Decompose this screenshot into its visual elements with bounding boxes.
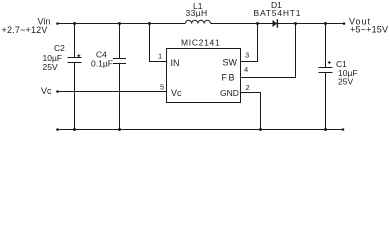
node Vout label <box>349 17 388 35</box>
svg-text:IN: IN <box>171 58 180 68</box>
svg-text:4: 4 <box>244 65 248 74</box>
wire Vc to pin 5 <box>57 91 167 93</box>
junction bottom rail / C2 <box>73 128 76 131</box>
capacitor C4 <box>113 23 126 130</box>
node bottom-right terminal dot <box>342 128 345 131</box>
svg-text:3: 3 <box>245 51 249 60</box>
wire IN pin from top rail <box>150 23 167 62</box>
svg-text:Vc: Vc <box>41 86 52 96</box>
svg-text:FB: FB <box>222 73 237 83</box>
svg-text:25V: 25V <box>338 77 353 87</box>
svg-text:+2.7~+12V: +2.7~+12V <box>2 25 48 35</box>
node Vc terminal dot <box>56 90 59 93</box>
svg-text:1: 1 <box>158 52 162 61</box>
wire SW pin to top rail <box>241 23 258 62</box>
svg-text:2: 2 <box>246 83 250 92</box>
svg-text:25V: 25V <box>43 62 58 72</box>
node Vin terminal dot <box>56 22 59 25</box>
junction top rail / SW wire <box>256 22 259 25</box>
capacitor C2 <box>68 23 82 130</box>
IC U1 MIC2141 <box>167 38 241 103</box>
svg-text:+5~+15V: +5~+15V <box>350 25 388 35</box>
svg-text:33µH: 33µH <box>186 8 208 18</box>
capacitor C1 <box>319 23 333 130</box>
svg-text:MIC2141: MIC2141 <box>181 38 220 48</box>
diode D1 <box>273 19 279 27</box>
junction bottom rail / C4 <box>118 128 121 131</box>
svg-text:SW: SW <box>223 58 238 68</box>
wire FB pin to output node <box>241 23 296 78</box>
junction top rail / IN wire <box>148 22 151 25</box>
wire top rail: L1 to Vout <box>211 23 345 25</box>
junction bottom rail / GND wire <box>259 128 262 131</box>
wire bottom rail <box>57 129 343 131</box>
inductor L1 <box>185 20 210 23</box>
wire top rail: Vin to L1 <box>57 23 185 25</box>
node Vin label <box>2 17 51 36</box>
junction top rail / FB wire <box>294 22 297 25</box>
junction top rail / C4 <box>118 22 121 25</box>
svg-text:BAT54HT1: BAT54HT1 <box>254 8 302 18</box>
svg-text:Vc: Vc <box>171 88 182 98</box>
svg-text:GND: GND <box>220 88 239 98</box>
svg-text:5: 5 <box>160 83 164 92</box>
junction top rail / C1 <box>324 22 327 25</box>
svg-text:C2: C2 <box>54 43 65 53</box>
node Vout terminal dot <box>343 22 346 25</box>
svg-text:0.1µF: 0.1µF <box>91 59 113 69</box>
junction top rail / C2 <box>73 22 76 25</box>
node bottom-left terminal dot <box>56 128 59 131</box>
wire GND pin to bottom rail <box>241 93 261 130</box>
junction bottom rail / C1 <box>324 128 327 131</box>
